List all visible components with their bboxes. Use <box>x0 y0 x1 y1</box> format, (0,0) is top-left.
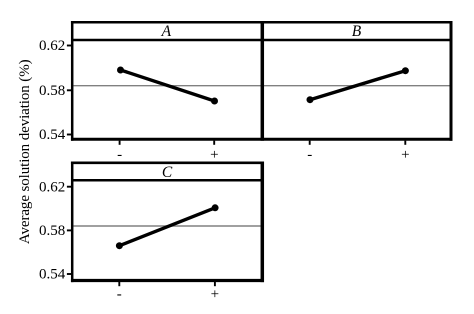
svg-text:+: + <box>210 147 218 163</box>
svg-text:+: + <box>211 286 219 302</box>
svg-text:0.62: 0.62 <box>39 179 65 195</box>
y ticks bottom row <box>67 186 71 188</box>
svg-text:0.62: 0.62 <box>39 38 65 54</box>
y ticks top row <box>67 45 71 47</box>
svg-text:C: C <box>162 164 173 181</box>
svg-text:A: A <box>161 23 172 40</box>
svg-text:0.58: 0.58 <box>39 223 65 239</box>
header separator bottom row <box>72 179 262 182</box>
gray reference line top row <box>74 85 450 87</box>
x ticks bottom row <box>118 282 120 286</box>
svg-text:0.54: 0.54 <box>39 127 66 143</box>
x ticks top row <box>119 141 121 145</box>
svg-text:+: + <box>401 147 409 163</box>
svg-text:0.58: 0.58 <box>39 83 65 99</box>
gray reference line bottom row <box>74 225 261 227</box>
svg-text:Average solution deviation (%): Average solution deviation (%) <box>17 59 33 244</box>
effect line panel A <box>121 70 215 101</box>
divider between A and B <box>261 21 265 141</box>
header separator top row <box>72 39 451 42</box>
C frame <box>71 162 264 165</box>
top frame <box>71 21 453 24</box>
svg-text:B: B <box>352 23 362 40</box>
svg-text:-: - <box>307 147 312 163</box>
svg-text:-: - <box>117 147 122 163</box>
effect line panel B <box>310 71 405 100</box>
effect line panel C <box>119 208 215 246</box>
svg-text:-: - <box>117 286 122 302</box>
svg-text:0.54: 0.54 <box>39 267 66 283</box>
